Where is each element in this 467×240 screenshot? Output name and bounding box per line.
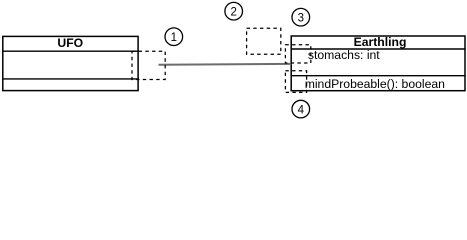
svg-text:stomachs: int: stomachs: int [308, 48, 380, 62]
Earthling class name label [354, 35, 407, 49]
class box Earthling [291, 36, 465, 91]
UFO class name label [57, 36, 83, 50]
annotation circle 4 [292, 100, 310, 118]
attribute label stomachs: int [308, 48, 380, 62]
dashed callout box 4 (over mindProbeable method) [285, 71, 306, 93]
annotation circle 3 [292, 8, 310, 26]
annotation circle 2 [225, 2, 243, 20]
annotation circle 1 [165, 28, 183, 46]
svg-text:UFO: UFO [57, 36, 83, 50]
svg-text:1: 1 [171, 32, 177, 44]
dashed callout box 3 (over stomachs attribute) [285, 45, 310, 63]
association line between UFO and Earthling [159, 63, 292, 66]
class box UFO [3, 36, 138, 90]
Earthling title divider [291, 48, 466, 50]
svg-text:Earthling: Earthling [354, 35, 407, 49]
dashed callout box 1 (over UFO right edge) [132, 51, 165, 79]
dashed callout box 2 (free-standing) [247, 28, 281, 54]
method label mindProbeable(): boolean [305, 77, 445, 91]
svg-text:2: 2 [230, 7, 236, 19]
UFO attribute/method divider [2, 78, 139, 80]
UFO title divider [2, 50, 139, 52]
svg-text:mindProbeable(): boolean: mindProbeable(): boolean [305, 77, 445, 91]
Earthling attribute/method divider [291, 75, 466, 77]
svg-text:4: 4 [298, 104, 305, 116]
svg-text:3: 3 [298, 13, 304, 25]
